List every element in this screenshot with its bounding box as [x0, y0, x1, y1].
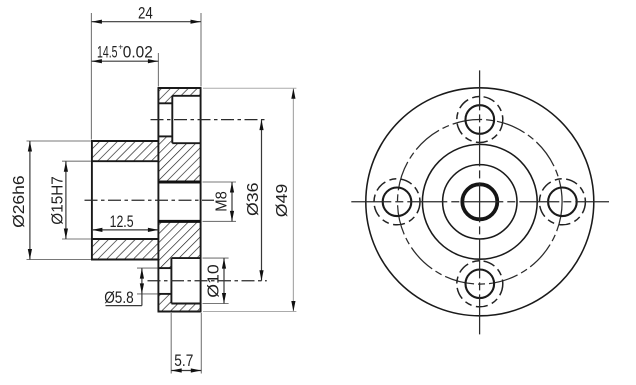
part outline: bore top	[92, 160, 158, 162]
bottom counterbore top edge	[171, 257, 200, 259]
M8 thread top thick line	[158, 181, 200, 184]
dim Ø36 line	[261, 120, 263, 281]
top bolt hole axis centerline	[151, 119, 267, 121]
dim 5.7 extension lines	[170, 313, 172, 374]
left bolt hole Ø5.8	[383, 188, 412, 217]
dim 5.7 line	[171, 370, 201, 372]
svg-text:5.7: 5.7	[174, 352, 193, 370]
part outline: flange bottom	[158, 311, 202, 313]
part outline: boss left face	[91, 141, 93, 260]
dim M8 line	[231, 182, 233, 221]
boss circle Ø26	[422, 144, 537, 259]
right bolt hole counterbore dashed Ø10	[539, 179, 585, 225]
svg-text:24: 24	[138, 5, 153, 23]
svg-text:Ø36: Ø36	[245, 182, 262, 216]
right bolt hole Ø5.8	[548, 188, 577, 217]
part outline: bore bottom	[92, 238, 158, 240]
hatch flange below bottom hole	[158, 294, 200, 312]
top counterbore bottom edge	[172, 142, 200, 144]
left bolt hole counterbore dashed Ø10	[374, 179, 420, 225]
part outline: boss bottom	[91, 259, 158, 261]
part outline: flange top	[158, 87, 202, 89]
bottom counterbore bottom face	[170, 258, 172, 303]
dim Ø26h6 extension lines	[27, 140, 91, 142]
dim Ø15H7 line	[65, 161, 67, 239]
dim Ø5.8 extension lines	[137, 267, 158, 269]
dim Ø15H7 extension lines	[62, 160, 91, 162]
svg-text:Ø5.8: Ø5.8	[104, 289, 134, 307]
dim 14.5+0.02 extension line	[157, 53, 159, 87]
hatch boss bottom wall	[92, 239, 158, 260]
top counterbore top edge	[172, 95, 200, 97]
vertical centerline right view	[479, 70, 481, 334]
horizontal centerline right view	[351, 201, 609, 203]
bottom counterbore bottom edge	[171, 303, 200, 305]
hatch boss top wall	[92, 141, 158, 161]
dim Ø5.8 leader underline	[106, 305, 142, 307]
svg-text:0.02: 0.02	[123, 44, 153, 62]
part outline: flange front face	[157, 88, 159, 312]
bolt circle Ø36 centerline circle	[398, 120, 563, 285]
dim M8 extension lines	[203, 181, 237, 183]
bore circle Ø15	[443, 165, 517, 239]
bottom bolt hole small bore top edge	[158, 267, 171, 269]
outer flange circle Ø49	[366, 88, 594, 316]
svg-text:12.5: 12.5	[110, 213, 134, 231]
bottom bolt hole small bore bottom edge	[158, 293, 171, 295]
dim Ø49 line	[292, 88, 294, 311]
bottom bolt hole counterbore dashed Ø10	[457, 261, 503, 307]
M8 thread bottom thick line	[158, 220, 200, 223]
part outline: boss top	[91, 140, 158, 142]
hatch flange between M8 and bottom hole	[158, 221, 200, 268]
hatch flange above top bolt hole	[158, 88, 200, 103]
top bolt hole small bore top edge	[158, 102, 172, 104]
part outline: flange right face	[200, 88, 202, 312]
top counterbore bottom face	[171, 96, 173, 143]
M8 tapped hole thick circle	[462, 184, 497, 219]
svg-text:M8: M8	[213, 191, 230, 212]
dim 24 extension lines	[90, 13, 92, 140]
bottom bolt hole axis centerline	[148, 280, 267, 282]
dim Ø10 extension lines	[203, 257, 229, 259]
dim 14.5+0.02 line	[91, 60, 158, 62]
svg-text:Ø26h6: Ø26h6	[11, 175, 28, 228]
dim 12.5 line	[92, 229, 158, 231]
svg-text:Ø49: Ø49	[274, 184, 291, 218]
top bolt hole Ø5.8	[466, 105, 495, 134]
svg-text:Ø15H7: Ø15H7	[50, 176, 67, 225]
bottom bolt hole Ø5.8	[466, 270, 495, 299]
svg-text:Ø10: Ø10	[206, 264, 223, 298]
top bolt hole small bore bottom edge	[158, 135, 172, 137]
main axis centerline	[85, 199, 215, 201]
hatch flange between top hole and M8	[158, 136, 200, 182]
dim Ø49 extension lines	[203, 87, 296, 89]
dim Ø10 line	[223, 258, 225, 303]
svg-text:14.5: 14.5	[97, 44, 118, 62]
dim Ø26h6 line	[29, 141, 31, 260]
top bolt hole counterbore dashed Ø10	[457, 97, 503, 143]
dim Ø5.8 line with arrows	[141, 268, 143, 306]
dim 24 line	[91, 21, 201, 23]
